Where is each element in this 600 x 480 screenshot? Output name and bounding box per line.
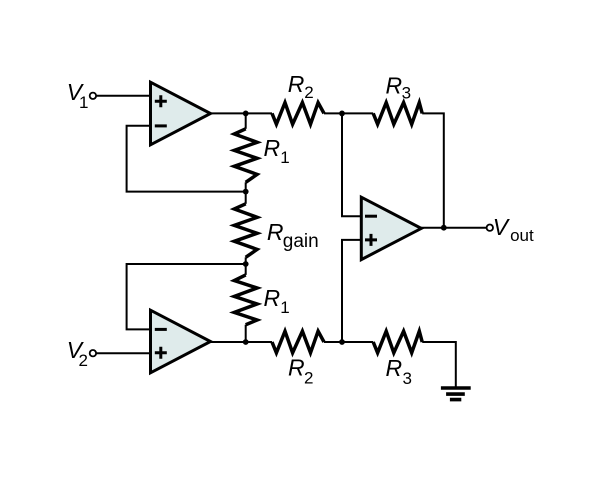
node B junction dot	[339, 111, 345, 117]
op-amp U1 minus sign	[155, 124, 167, 127]
node D junction dot	[243, 261, 249, 267]
resistor R1 (upper, vertical)	[234, 129, 257, 183]
output node junction dot	[441, 225, 447, 231]
wire U2 output to R2 lower	[209, 341, 272, 343]
svg-text:gain: gain	[283, 231, 319, 252]
resistor R1 (lower, vertical)	[234, 275, 257, 325]
wire Rgain to node D	[245, 257, 247, 275]
terminal Vout	[487, 225, 493, 231]
wire V1 input	[96, 95, 150, 97]
svg-text:1: 1	[280, 148, 289, 167]
resistor R2 (bottom)	[272, 331, 324, 353]
resistor R3 (bottom)	[373, 331, 422, 353]
wire node B down to U3 inverting input	[342, 113, 361, 216]
svg-text:V: V	[493, 214, 511, 240]
node A junction dot	[243, 111, 249, 117]
terminal V2	[90, 350, 96, 356]
op-amp U3 plus sign	[365, 234, 377, 246]
wire U3 noninverting input down to bottom rail	[342, 240, 361, 342]
wire R2 to node B	[324, 112, 342, 114]
svg-text:2: 2	[304, 369, 313, 388]
terminal V1	[90, 93, 96, 99]
svg-text:3: 3	[403, 369, 412, 388]
svg-text:R: R	[288, 354, 305, 380]
svg-text:R: R	[264, 135, 281, 161]
op-amp U1 (top left)	[151, 82, 211, 145]
wire R1 to node C	[245, 182, 247, 204]
wire R1 lower to bottom rail	[245, 325, 247, 342]
op-amp U2 minus sign	[155, 328, 167, 331]
svg-text:1: 1	[79, 93, 88, 112]
wire V2 input	[96, 352, 150, 354]
svg-text:R: R	[386, 355, 403, 381]
wire R2 bottom to node E	[324, 341, 373, 343]
resistor R3 (top)	[373, 103, 422, 125]
wire U1 feedback	[127, 126, 246, 192]
svg-text:R: R	[288, 71, 305, 97]
node C junction dot	[243, 189, 249, 195]
wire node A to R1	[245, 113, 247, 128]
svg-text:R: R	[386, 73, 403, 99]
svg-text:R: R	[264, 285, 281, 311]
op-amp U2 (bottom left)	[151, 310, 211, 373]
op-amp U1 plus sign	[155, 95, 167, 107]
resistor Rgain (vertical)	[234, 204, 257, 257]
wire node B to R3	[342, 112, 373, 114]
wire U2 feedback	[127, 264, 246, 329]
op-amp U3 (right)	[361, 197, 421, 259]
node E junction dot (bottom rail right)	[339, 339, 345, 345]
svg-text:1: 1	[280, 298, 289, 317]
resistor R2 (top)	[272, 103, 324, 125]
op-amp U3 minus sign	[365, 215, 377, 218]
wire R3 bottom to ground	[422, 342, 456, 388]
wire U1 output to R2	[209, 112, 272, 114]
svg-text:out: out	[510, 226, 534, 245]
wire R3 to output node	[422, 113, 444, 227]
svg-text:R: R	[267, 219, 284, 245]
svg-text:2: 2	[304, 83, 313, 102]
svg-text:2: 2	[79, 351, 88, 370]
op-amp U2 plus sign	[155, 347, 167, 359]
wire U3 output to Vout	[420, 227, 487, 229]
svg-text:3: 3	[402, 84, 411, 103]
ground	[441, 388, 471, 400]
node F junction dot (bottom rail)	[243, 339, 249, 345]
